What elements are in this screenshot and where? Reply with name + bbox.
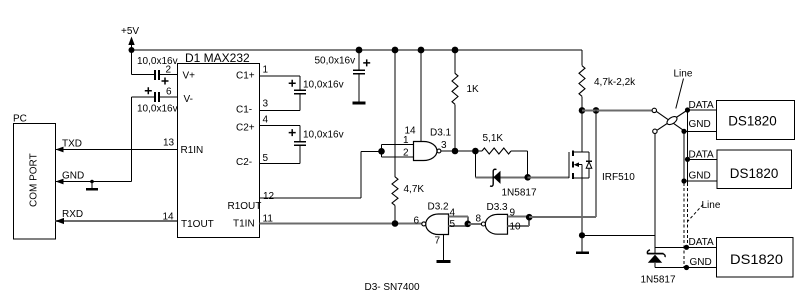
wire lower branch	[474, 151, 476, 177]
wire ground branch to remote diode	[654, 134, 656, 236]
svg-text:C2+: C2+	[236, 123, 255, 134]
svg-text:D3.2: D3.2	[428, 202, 450, 213]
op IC U1: D1 MAX232	[178, 64, 260, 238]
svg-text:T1IN: T1IN	[233, 219, 255, 230]
svg-text:4,7K: 4,7K	[404, 184, 425, 195]
svg-text:D3- SN7400: D3- SN7400	[365, 282, 420, 293]
svg-text:6: 6	[166, 87, 172, 98]
svg-text:R1OUT: R1OUT	[228, 201, 262, 212]
svg-text:DS1820: DS1820	[728, 113, 777, 129]
svg-text:10: 10	[510, 222, 522, 233]
svg-text:DS1820: DS1820	[730, 165, 779, 181]
svg-text:Line: Line	[674, 69, 693, 80]
svg-text:13: 13	[163, 138, 175, 149]
NAND gate D3.1 (7400)	[418, 47, 425, 54]
resistor 1K	[452, 47, 459, 54]
svg-text:D1 MAX232: D1 MAX232	[185, 51, 250, 65]
svg-text:DATA: DATA	[689, 150, 715, 161]
svg-text:14: 14	[163, 212, 175, 223]
wire data down to D3.3 inputs	[595, 110, 597, 217]
wire source down to ground	[581, 178, 583, 252]
svg-text:PC: PC	[13, 114, 27, 125]
capacitor 10,0x16v (V- pin 6)	[132, 96, 154, 98]
svg-text:1N5817: 1N5817	[502, 188, 537, 199]
svg-text:5,1K: 5,1K	[483, 133, 504, 144]
twist crossover	[656, 111, 684, 130]
wire D3.1 output	[441, 150, 482, 152]
wire GND bus	[681, 129, 686, 134]
svg-text:3: 3	[263, 99, 269, 110]
wire DATA bus	[685, 107, 690, 112]
svg-text:2: 2	[166, 65, 172, 76]
svg-text:+5V: +5V	[121, 26, 139, 37]
svg-text:10,0x16v: 10,0x16v	[137, 104, 178, 115]
svg-text:D3.1: D3.1	[430, 128, 452, 139]
IC DS1820 (bottom)	[655, 246, 717, 248]
node D3.1 input junction	[378, 148, 385, 155]
wire drain up	[581, 110, 583, 152]
ground (COM port)	[90, 180, 94, 184]
wire +5V rail	[132, 49, 583, 51]
svg-text:1N5817: 1N5817	[641, 275, 676, 286]
svg-text:4,7k-2,2k: 4,7k-2,2k	[594, 77, 636, 88]
svg-text:GND: GND	[689, 119, 711, 130]
wire to gate	[528, 176, 569, 178]
svg-text:12: 12	[263, 191, 275, 202]
svg-text:9: 9	[510, 208, 516, 219]
NAND gate D3.3 (7400, mirrored)	[485, 214, 507, 234]
svg-text:10,0x16v: 10,0x16v	[303, 80, 344, 91]
svg-text:C1-: C1-	[236, 105, 252, 116]
resistor 4,7K	[392, 47, 399, 54]
svg-text:5: 5	[450, 219, 456, 230]
wires D3.3 inputs 9,10	[508, 216, 530, 218]
svg-text:GND: GND	[690, 257, 712, 268]
svg-text:1: 1	[263, 65, 269, 76]
wire RXD (T1OUT pin 14 to COM port)	[56, 220, 178, 222]
node pullup/data	[579, 107, 586, 114]
node gate	[524, 174, 531, 181]
svg-text:C1+: C1+	[236, 71, 255, 82]
svg-text:TXD: TXD	[62, 139, 82, 150]
node D3.1 out / 1K	[452, 148, 459, 155]
svg-text:10,0x16v: 10,0x16v	[137, 56, 178, 67]
wire TXD (COM port to R1IN pin 13)	[56, 149, 178, 151]
svg-text:T1OUT: T1OUT	[181, 219, 214, 230]
line terminal circles	[652, 108, 656, 112]
wire GND (COM port to supply ground)	[56, 181, 132, 183]
svg-text:5: 5	[263, 153, 269, 164]
capacitor 10,0x16v (C2+ / C2-)	[260, 125, 300, 127]
svg-text:7: 7	[435, 236, 441, 247]
svg-text:1: 1	[403, 135, 409, 146]
wire D3.3 inputs to data line	[529, 216, 596, 218]
svg-text:3: 3	[441, 140, 447, 151]
diode D2 1N5817 (remote ground)	[647, 250, 665, 257]
svg-text:DS1820: DS1820	[730, 251, 783, 267]
svg-text:RXD: RXD	[62, 209, 83, 220]
svg-text:4: 4	[450, 208, 456, 219]
svg-text:DATA: DATA	[689, 237, 715, 248]
IC DS1820 (top)	[688, 109, 717, 111]
svg-text:2: 2	[403, 148, 409, 159]
svg-text:8: 8	[476, 214, 482, 225]
svg-text:IRF510: IRF510	[602, 172, 635, 183]
svg-text:C2-: C2-	[236, 157, 252, 168]
wire V- to ground net	[131, 97, 133, 181]
svg-text:V-: V-	[184, 94, 193, 105]
wire D3.3 out to D3.2 in	[468, 223, 482, 225]
svg-text:1K: 1K	[467, 84, 480, 95]
svg-text:V+: V+	[183, 71, 196, 82]
capacitor 10,0x16v (C1+ / C1-)	[260, 75, 300, 77]
svg-text:4: 4	[263, 115, 269, 126]
svg-text:Line: Line	[702, 200, 721, 211]
svg-text:50,0x16v: 50,0x16v	[315, 56, 356, 67]
svg-text:6: 6	[414, 216, 420, 227]
svg-text:COM PORT: COM PORT	[29, 153, 40, 207]
IC DS1820 (middle)	[685, 157, 690, 162]
svg-text:D3.3: D3.3	[487, 202, 509, 213]
svg-text:GND: GND	[689, 171, 711, 182]
PC COM PORT box	[14, 124, 56, 240]
ground (MOSFET source)	[576, 251, 589, 254]
diode D1 1N5817 (gate speedup)	[493, 171, 500, 184]
svg-text:GND: GND	[62, 171, 84, 182]
svg-text:R1IN: R1IN	[181, 145, 204, 156]
wire data to line terminal	[582, 109, 652, 111]
resistor 4,7k-2,2k	[581, 50, 583, 66]
svg-text:DATA: DATA	[689, 100, 715, 111]
node branch to gate network	[472, 148, 479, 155]
resistor 5,1K	[482, 148, 511, 154]
ground (D3.2 pin 7)	[443, 235, 445, 261]
transistor Q1 IRF510	[569, 150, 592, 179]
svg-text:10,0x16v: 10,0x16v	[303, 130, 344, 141]
NAND gate D3.2 (7400, mirrored)	[426, 214, 449, 235]
wires D3.2 inputs 4,5	[449, 216, 468, 218]
